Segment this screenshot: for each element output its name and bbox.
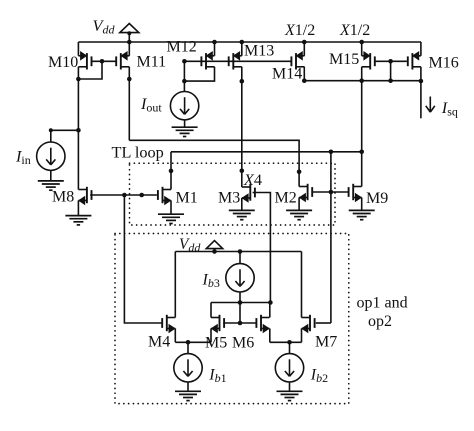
node Vdd (op-amp) [206,241,222,252]
wire M2 source to ground [298,198,300,211]
wire M11 source riser [128,42,130,56]
wire M16 drain / Isq output [420,67,422,119]
wire M6 gate lead [240,322,256,324]
svg-text:M12: M12 [167,39,197,56]
wire M10 drain riser [77,67,79,190]
wire M13 drain down to X4 node [241,67,243,171]
junction M15 drain [359,78,364,83]
junction M2 drain node [297,170,302,175]
svg-text:M13: M13 [244,43,274,60]
wire M8 source to ground [77,201,79,216]
wire M14 drain riser [303,67,305,81]
wire M9 source to ground [361,198,363,211]
wire M2 gate lead [312,191,331,193]
output arrow Isq [426,97,435,113]
junction M16 drain [419,79,424,84]
wire M6 bottom drop [269,329,271,343]
wire Iin to ground [50,170,52,181]
wire M4 source riser (to Vdd rail) [174,252,176,318]
transistor M2 [299,184,313,203]
wire M10 source stub riser [77,42,79,56]
wire Vdd rail [78,41,421,43]
junction gate line to op-amp drop [122,193,127,198]
junction Ib2 tap [287,340,292,345]
transistor M10 [78,51,91,70]
junction M3 gate tap [268,300,273,305]
junction Vdd stem [212,249,217,254]
wire M12 source riser [214,42,216,56]
current source Iout [170,92,198,120]
transistor M12 [201,51,214,70]
wire M13 source riser [241,42,243,56]
svg-text:M10: M10 [48,54,78,71]
transistor M1 [158,187,172,206]
wire Iout to ground [184,120,186,127]
wire M11 drain riser [128,67,130,141]
wire Iout feed [183,81,185,91]
wire M14-M15-M16 drain bus [304,80,421,82]
transistor M13 [229,51,242,70]
op1/op2 dashed box [115,234,349,404]
wire Ib1 to ground [187,382,189,391]
junction Ib3 at rail [238,249,243,254]
node Vdd [120,24,139,43]
wire M5-M6 top bus [211,302,270,304]
ground Iout [172,127,198,136]
svg-text:M11: M11 [137,54,167,71]
current source Ib1 [174,354,202,382]
wire M5 gate lead [223,322,240,324]
wire M9 drain riser [361,152,363,187]
wire M1 source to ground [170,201,172,215]
junction M15-M16 gate tap [388,59,393,64]
junction Ib3 node [238,300,243,305]
transistor M8 [78,187,92,206]
transistor M11 [116,51,129,70]
wire M6-M7 tail bus [270,341,302,343]
svg-text:M16: M16 [429,55,459,72]
wire M7 source riser (to Vdd rail) [301,252,303,318]
transistor M9 [349,184,363,203]
wire M7 drain drop [301,329,303,343]
transistor M14 [291,51,304,70]
wire M5 top riser [210,303,212,318]
svg-text:X1/2: X1/2 [284,22,315,39]
transistor M6 [256,315,270,334]
wire M10-M11 gate line [91,60,116,62]
junction M11 drain [127,77,132,82]
svg-text:M14: M14 [272,66,302,83]
wire M3 gate to op1 output [253,193,271,303]
svg-text:M5: M5 [205,335,227,352]
wire M5 bottom drop [210,329,212,343]
svg-text:M9: M9 [366,190,388,207]
svg-text:Ib2: Ib2 [310,366,328,385]
junction M13 source at rail [240,40,245,45]
wire gate-to-drain drop M15/M16 [390,61,392,80]
svg-text:M15: M15 [329,51,359,68]
wire TL loop top bus [171,151,362,153]
svg-text:Ib3: Ib3 [202,272,220,291]
transistor M16 [408,51,421,70]
transistor M5 [211,315,225,334]
wire M3 drain stub riser [241,171,243,187]
wire M11 drain to M2 drain [129,140,299,186]
wire M15 drain down to TL loop [361,67,363,152]
svg-text:M3: M3 [218,190,240,207]
junction M5-M6 gate node [238,321,243,326]
svg-text:X4: X4 [243,170,262,189]
ground M1 [158,214,184,223]
wire M14 source riser [303,42,305,56]
wire M9 gate lead [331,191,349,193]
wire op-amp input column (TL bus to M7 gate) [330,152,332,323]
junction TL bus at M9 drain [359,150,364,155]
svg-text:Isq: Isq [441,98,458,119]
transistor M15 [362,51,375,70]
wire M8 drain stub riser [77,189,79,191]
wire op-amp Vdd rail [175,251,301,253]
svg-text:X1/2: X1/2 [339,22,370,39]
junction M14 drain [302,78,307,83]
wire Ib3 feed [239,252,241,264]
wire M10 gate-drain loop [78,61,102,79]
svg-text:Iin: Iin [15,147,31,168]
wire M6 top riser [269,303,271,318]
junction M1 drain [169,169,174,174]
wire Ib3 to followers [239,292,241,303]
svg-text:op2: op2 [368,313,392,330]
svg-text:Ib1: Ib1 [208,366,226,385]
current source Ib2 [275,354,303,382]
junction M12 gate [182,59,187,64]
transistor M4 [162,315,176,334]
wire M4 drain drop [174,329,176,343]
junction M15 source at rail [359,40,364,45]
ground M3 [229,210,255,219]
transistor M7 [301,315,315,334]
junction gate line node [139,193,144,198]
junction M12 drain / Iout tap [182,79,187,84]
junction Iin corner [49,128,53,132]
svg-text:M6: M6 [232,335,254,352]
wire M1 drain riser [170,152,172,190]
junction M2-M9 gate node [329,190,334,195]
ground M8 [65,216,91,225]
wire M12 gate-drain loop [184,61,214,81]
svg-text:Iout: Iout [140,94,162,115]
wire M12-M13-M14 gate line [184,60,291,62]
junction M10 gate [100,59,105,64]
wire M3 source to ground [241,198,243,210]
wire M7 gate lead [316,322,331,324]
ground M2 [286,210,312,219]
svg-text:op1 and: op1 and [357,295,408,312]
wire M4-M5 tail bus [175,341,211,343]
wire M5-M6 gate to Ib3 node [239,303,241,324]
TL loop dashed box [130,163,336,225]
svg-text:M7: M7 [315,334,337,351]
svg-text:M4: M4 [148,334,170,351]
svg-text:M8: M8 [52,189,74,206]
svg-text:M2: M2 [275,190,297,207]
ground Ib1 [175,391,201,400]
junction M10 drain [76,77,81,82]
wire M15-M16 gate line [375,60,407,62]
svg-text:M1: M1 [176,190,198,207]
ground Iin [38,181,64,190]
svg-text:TL loop: TL loop [112,143,164,162]
current source Ib3 [226,264,254,292]
wire M8-M1 gate line [90,194,157,196]
wire M16 source riser [420,42,422,56]
ground Ib2 [277,391,303,400]
junction Ib1 tap [186,340,191,345]
wire Ib1 feed [187,342,189,353]
wire M15 source riser [361,42,363,56]
junction X4 node [240,169,245,174]
junction M12 source at rail [212,40,217,45]
current source Iin [37,142,65,170]
junction M13 drain [240,79,245,84]
wire Ib2 feed [289,342,291,353]
wire Ib2 to ground [289,382,291,391]
junction M11 source at rail [127,40,132,45]
wire gate drop to M4 gate (op2 input) [124,195,162,323]
ground M9 [349,210,375,219]
junction TL bus to op-amp column [329,150,334,155]
junction M14 source at rail [302,40,307,45]
transistor M3 [241,184,255,203]
junction Iin at M10 drain column [76,128,81,133]
svg-text:Vdd: Vdd [93,16,116,37]
wire Iin node [51,130,79,142]
svg-text:Vdd: Vdd [179,236,201,255]
junction gate drop at drain bus [388,78,393,83]
